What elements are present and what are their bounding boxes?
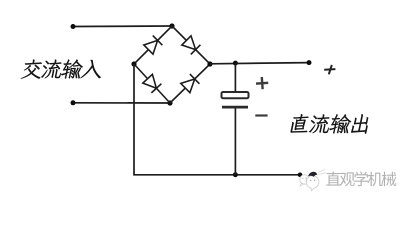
wire: bridge diamond side left-top [134,26,172,64]
node: capacitor bottom junction dot [233,172,238,177]
wire: bridge diamond side bottom-right [170,64,210,103]
wire: top AC line [73,25,172,28]
node: bridge left junction dot [131,61,136,66]
node: bridge top junction dot [169,23,174,28]
label: output plus sign [324,65,335,74]
wire: bridge diamond side left-bottom [134,64,170,103]
wire: capacitor bottom lead [234,108,236,174]
watermark logo sketch lines [318,170,327,175]
watermark logo speech bubble right [306,176,319,191]
wire: bridge diamond side top-right [172,26,210,64]
node: capacitor top junction dot [233,61,238,66]
label: DC output text 直流输出 [290,114,368,134]
capacitor C1 negative plate (solid bar) [222,106,248,109]
wire: DC minus - left node down and along bottom [134,64,300,175]
node: plus rail end terminal dot [307,60,312,65]
diode D4 (bottom node to right node) [181,74,200,93]
watermark text 直观学机械 [326,172,396,187]
capacitor C1 positive plate (hollow) [222,92,249,98]
wire: bottom AC line [73,102,170,104]
node: bridge bottom junction dot [167,100,172,105]
diode D2 (top node to right node) [182,36,201,55]
watermark logo dark beret [308,172,317,177]
node: minus rail end terminal dot [298,173,303,178]
watermark logo speech bubble left [300,175,309,186]
node: bottom AC input terminal dot [71,100,76,105]
label: capacitor plus sign [256,77,269,90]
label: AC input text 交流输入 [21,59,101,78]
label: capacitor minus sign [255,114,267,116]
wire: DC plus rail from right node [210,63,309,64]
diode D1 (lower-left to top node) [144,36,163,55]
wire: capacitor top lead [234,63,236,91]
node: bridge right junction dot [207,61,212,66]
diode D3 (left node to bottom node) [143,74,162,93]
node: top AC input terminal dot [71,24,76,29]
